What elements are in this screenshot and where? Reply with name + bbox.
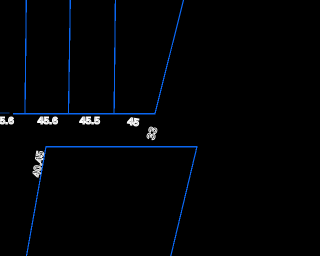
svg-text:45.6: 45.6 (38, 115, 59, 127)
svg-text:45.6: 45.6 (0, 115, 14, 127)
svg-text:45.5: 45.5 (80, 115, 101, 127)
wire: extension line 3 (third vertical) (114, 0, 115, 114)
wire: lower trapezoid top edge (46, 146, 198, 148)
svg-text:45: 45 (127, 116, 140, 130)
wire: top profile horizontal dimension line (13, 113, 156, 115)
wire: top profile horizontal dimension line (dim stub at far left) (0, 112, 10, 114)
wire: lower trapezoid left slanted edge (27, 147, 47, 256)
wire: top profile diagonal (155, 0, 184, 114)
wire: extension line 2 (second vertical) (69, 0, 71, 114)
wire: lower trapezoid right slanted edge (171, 147, 197, 256)
wire: extension line 1 (left vertical) (25, 0, 26, 114)
